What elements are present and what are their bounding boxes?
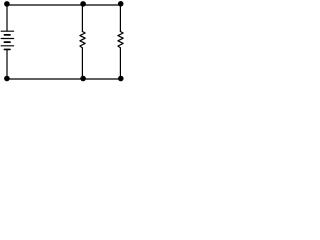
node dot bottom-left bbox=[4, 76, 10, 82]
wire right vertical upper bbox=[119, 5, 121, 32]
wire top horizontal bbox=[7, 4, 120, 6]
wire right vertical lower bbox=[119, 48, 121, 79]
wire bottom horizontal bbox=[7, 78, 120, 80]
wire left vertical lower bbox=[6, 49, 8, 79]
resistor R1 (middle branch) bbox=[80, 32, 85, 48]
resistor R2 (right branch) bbox=[118, 32, 123, 48]
node dot bottom-middle bbox=[80, 76, 86, 82]
wire left vertical upper bbox=[6, 5, 8, 31]
node dot bottom-right bbox=[118, 76, 124, 82]
node dot top-left bbox=[4, 1, 10, 7]
battery B1 bbox=[1, 31, 13, 49]
node dot top-right bbox=[118, 1, 124, 7]
wire middle vertical upper bbox=[81, 5, 83, 32]
node dot top-middle bbox=[80, 1, 86, 7]
wire middle vertical lower bbox=[81, 48, 83, 79]
